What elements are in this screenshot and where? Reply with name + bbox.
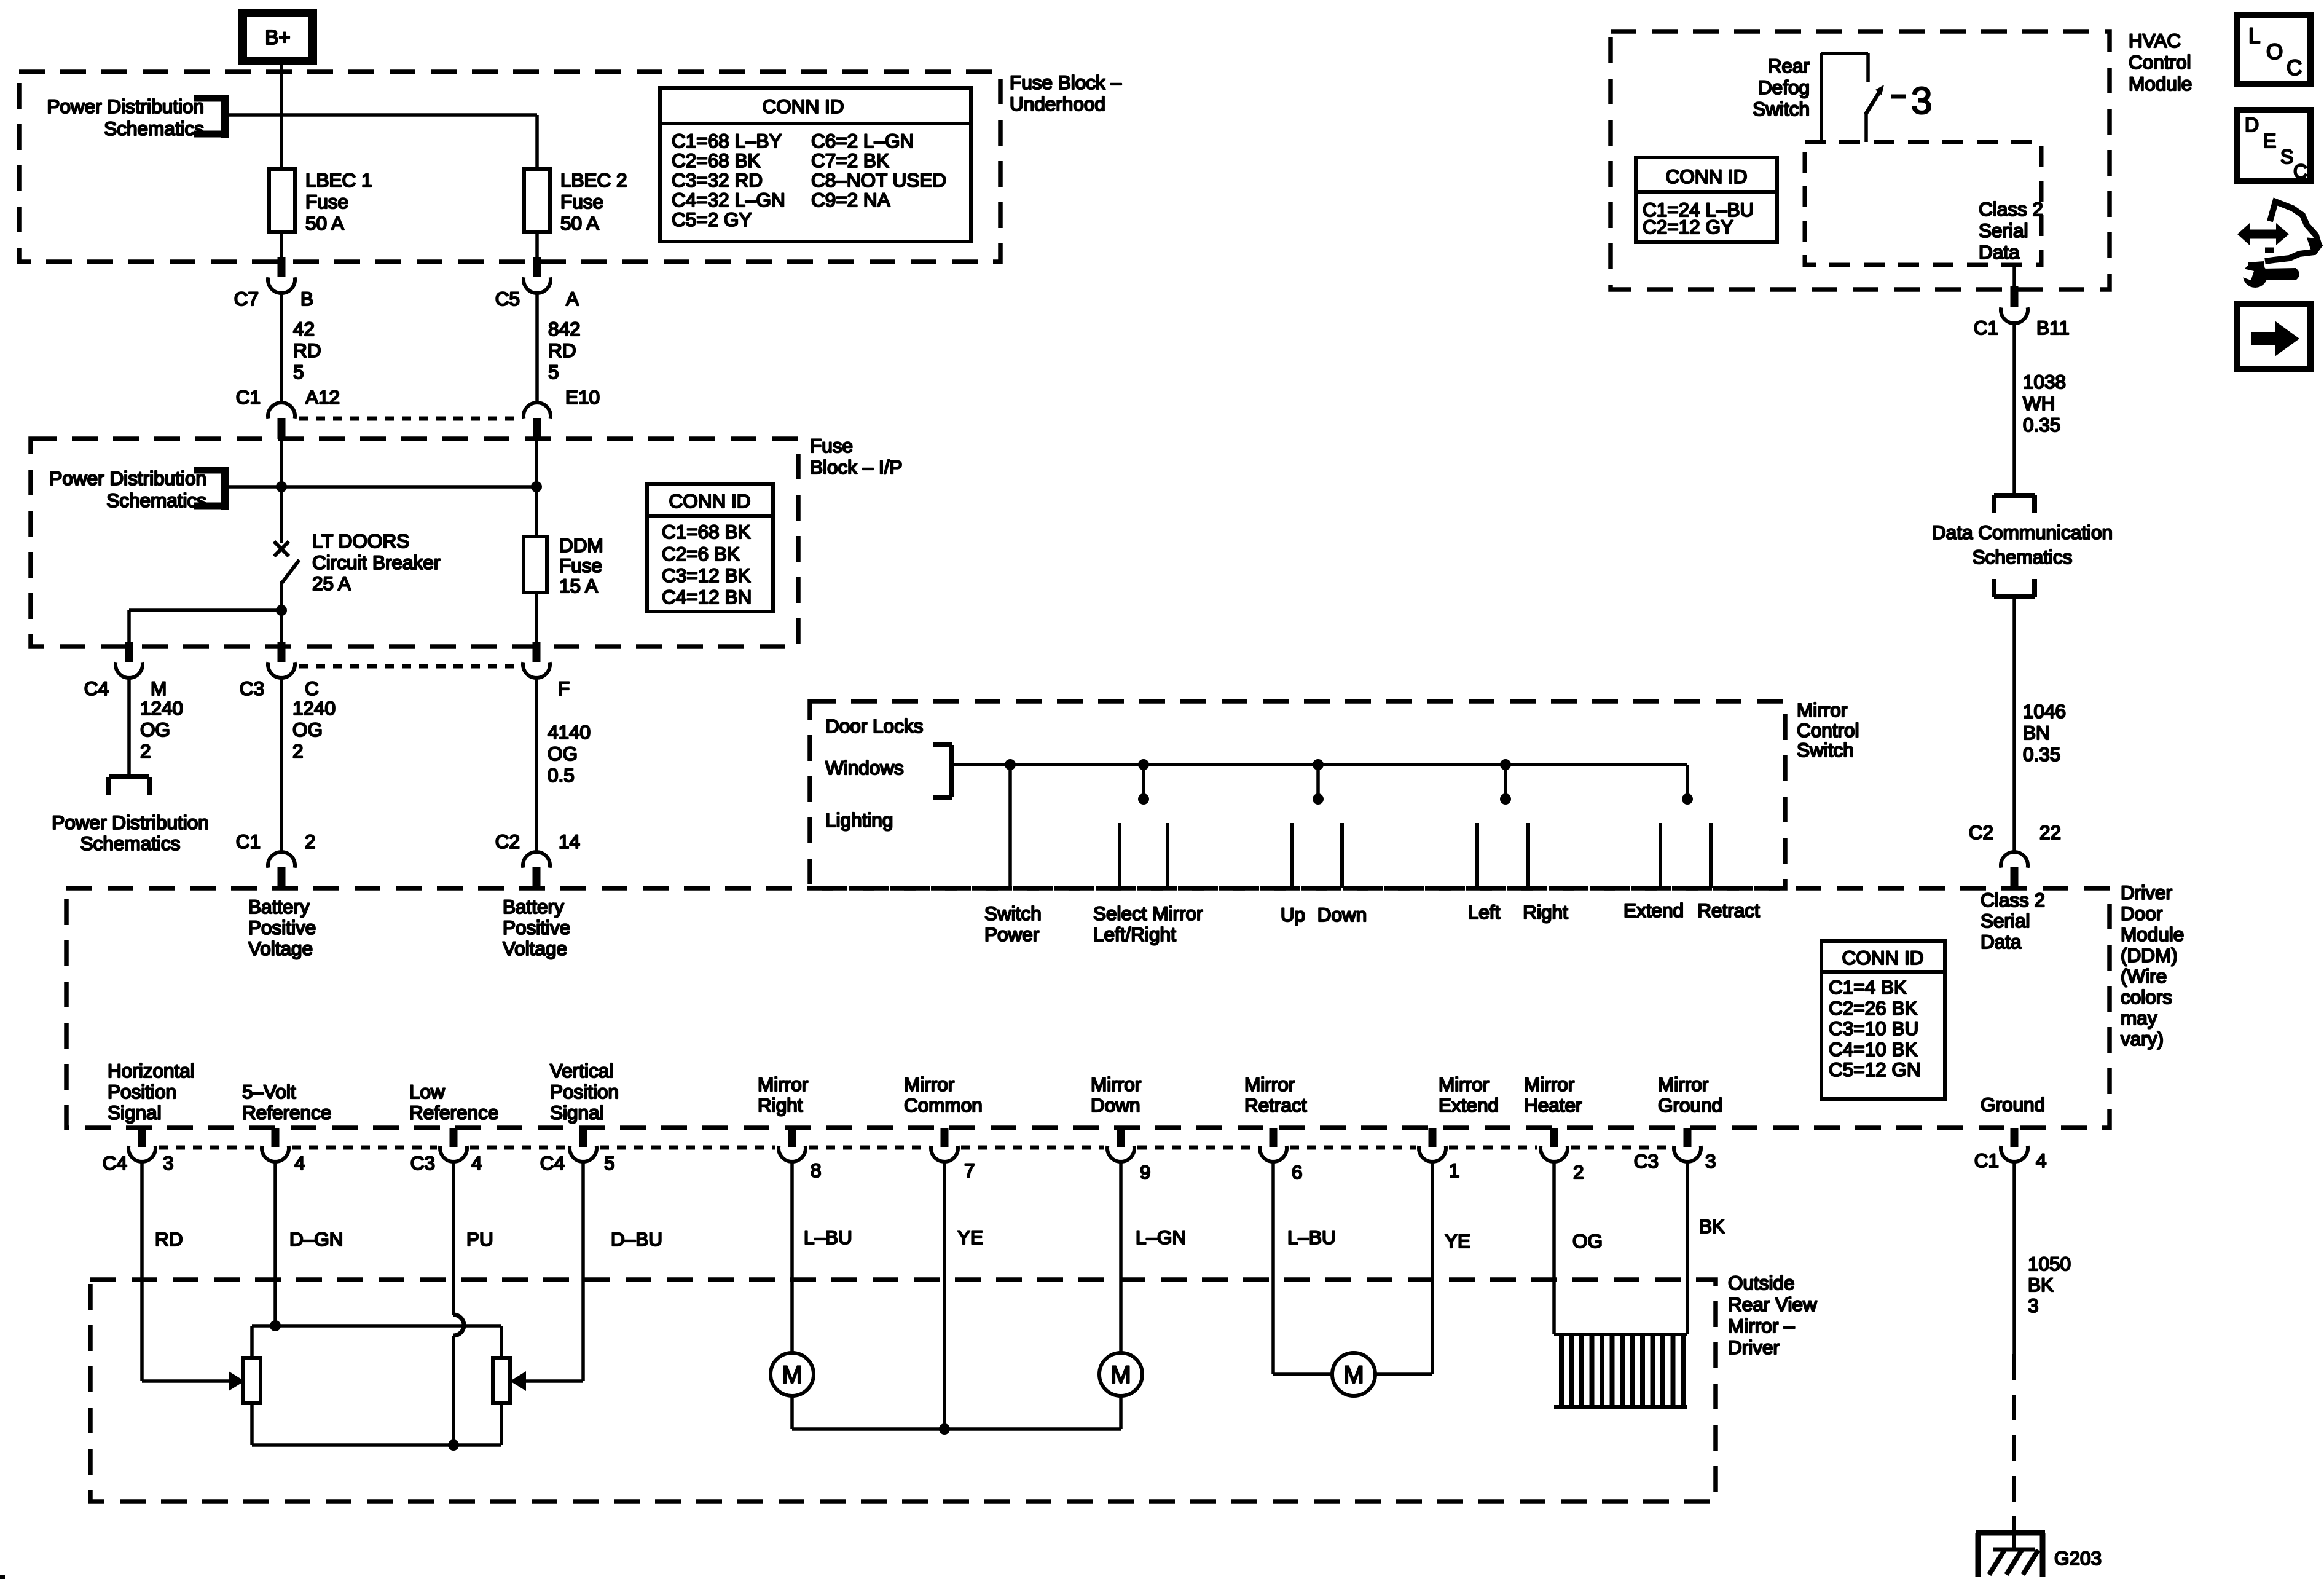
svg-text:Mirror: Mirror [1658,1073,1708,1095]
svg-text:OG: OG [292,719,323,741]
svg-text:L–GN: L–GN [1136,1226,1186,1248]
svg-text:7: 7 [964,1159,975,1181]
svg-text:Switch: Switch [1753,98,1810,120]
svg-text:C3=12 BK: C3=12 BK [662,564,750,586]
svg-text:G203: G203 [2054,1547,2102,1569]
svg-text:Voltage: Voltage [503,937,567,959]
svg-text:5–Volt: 5–Volt [242,1081,296,1103]
svg-text:Battery: Battery [503,896,564,918]
svg-text:42: 42 [293,318,315,340]
svg-text:Driver: Driver [2121,881,2172,904]
svg-text:C4: C4 [84,677,109,699]
svg-text:Position: Position [108,1081,176,1103]
svg-text:1: 1 [1449,1159,1460,1181]
svg-text:CONN ID: CONN ID [1666,165,1748,187]
svg-text:Right: Right [1523,901,1568,923]
svg-text:BK: BK [2028,1274,2054,1296]
svg-text:BN: BN [2023,722,2050,744]
svg-text:L: L [2248,24,2260,48]
svg-text:1038: 1038 [2023,371,2066,393]
svg-text:C7=2 BK: C7=2 BK [811,149,889,171]
svg-text:may: may [2121,1007,2157,1029]
svg-text:C7: C7 [234,288,259,310]
svg-text:colors: colors [2121,986,2172,1008]
svg-text:A: A [566,288,579,310]
svg-text:C2: C2 [1969,821,1993,843]
svg-text:CONN ID: CONN ID [669,490,751,512]
svg-text:WH: WH [2023,392,2055,414]
svg-text:C2: C2 [495,830,520,853]
svg-text:Switch: Switch [984,902,1042,924]
svg-text:Position: Position [550,1081,619,1103]
svg-text:C4=12 BN: C4=12 BN [662,586,752,608]
svg-text:Outside: Outside [1728,1272,1795,1294]
svg-text:Fuse: Fuse [559,554,602,577]
svg-text:OG: OG [548,742,578,765]
svg-text:C4=10 BK: C4=10 BK [1829,1038,1917,1060]
svg-text:Power Distribution: Power Distribution [52,811,209,833]
svg-text:HVAC: HVAC [2129,30,2181,52]
svg-text:Control: Control [2129,51,2191,73]
svg-text:B11: B11 [2036,317,2070,339]
svg-text:Schematics: Schematics [106,489,206,511]
svg-text:C2=26 BK: C2=26 BK [1829,997,1917,1019]
svg-text:1240: 1240 [140,697,183,719]
svg-text:3: 3 [1911,80,1932,122]
svg-text:14: 14 [559,830,580,853]
svg-text:Fuse Block –: Fuse Block – [1010,71,1122,93]
svg-text:50 A: 50 A [305,212,344,234]
svg-text:Down: Down [1317,904,1367,926]
svg-text:S: S [2280,146,2293,168]
svg-text:C6=2 L–GN: C6=2 L–GN [811,130,914,152]
svg-text:Schematics: Schematics [1973,546,2073,568]
svg-text:4: 4 [471,1152,482,1174]
svg-text:M: M [1343,1361,1364,1388]
svg-text:C5=12 GN: C5=12 GN [1829,1058,1921,1081]
svg-text:Rear View: Rear View [1728,1293,1817,1315]
svg-text:C4=32 L–GN: C4=32 L–GN [672,189,785,211]
svg-text:E: E [2263,130,2276,152]
svg-text:Power Distribution: Power Distribution [47,95,204,117]
svg-text:9: 9 [1140,1161,1151,1183]
svg-text:CONN ID: CONN ID [763,95,844,117]
svg-text:YE: YE [1445,1230,1470,1252]
svg-text:Reference: Reference [409,1101,498,1124]
svg-text:C3=32 RD: C3=32 RD [672,169,763,191]
svg-text:PU: PU [466,1228,493,1250]
svg-text:Reference: Reference [242,1101,331,1124]
svg-text:B+: B+ [265,26,290,49]
svg-text:B: B [300,288,313,310]
svg-text:D–GN: D–GN [289,1228,343,1250]
svg-text:Down: Down [1091,1094,1140,1116]
svg-text:Common: Common [904,1094,983,1116]
svg-text:C1=4 BK: C1=4 BK [1829,976,1907,998]
svg-text:Schematics: Schematics [104,117,204,140]
svg-text:Mirror –: Mirror – [1728,1315,1795,1337]
svg-text:C1=68 BK: C1=68 BK [662,521,750,543]
svg-text:2: 2 [305,830,316,853]
svg-text:Serial: Serial [1979,219,2028,242]
svg-text:5: 5 [293,361,304,383]
svg-text:Positive: Positive [503,916,570,939]
svg-text:Data: Data [1979,241,2020,263]
svg-text:Data: Data [1981,931,2022,953]
svg-text:C2=6 BK: C2=6 BK [662,543,740,565]
svg-text:C1: C1 [236,386,261,408]
svg-text:Serial: Serial [1981,910,2030,932]
svg-text:Windows: Windows [825,757,904,779]
svg-text:C1: C1 [236,830,261,853]
svg-text:3: 3 [163,1152,174,1174]
svg-text:Select Mirror: Select Mirror [1093,902,1203,924]
svg-text:25 A: 25 A [312,572,351,594]
svg-text:Heater: Heater [1524,1094,1582,1116]
svg-text:OG: OG [1572,1230,1603,1252]
svg-text:C1: C1 [1974,1149,1999,1171]
svg-text:Power: Power [984,923,1039,945]
svg-text:Horizontal: Horizontal [108,1060,195,1082]
svg-text:C3: C3 [1634,1150,1659,1172]
svg-text:Ground: Ground [1981,1093,2045,1116]
svg-text:1240: 1240 [292,697,336,719]
svg-text:0.5: 0.5 [548,764,575,786]
svg-text:842: 842 [548,318,581,340]
svg-text:Door Locks: Door Locks [825,715,923,737]
svg-text:(DDM): (DDM) [2121,944,2178,966]
svg-text:C: C [305,677,319,699]
svg-text:CONN ID: CONN ID [1842,947,1924,969]
svg-text:L–BU: L–BU [1287,1226,1336,1248]
svg-text:Switch: Switch [1797,739,1854,761]
svg-text:Ground: Ground [1658,1094,1722,1116]
svg-text:L–BU: L–BU [804,1226,852,1248]
svg-text:Mirror: Mirror [1797,699,1847,721]
svg-text:A12: A12 [305,386,340,408]
svg-text:D: D [2245,114,2259,136]
svg-text:C4: C4 [103,1152,127,1174]
svg-text:RD: RD [293,339,321,361]
svg-text:Low: Low [409,1081,445,1103]
svg-text:RD: RD [155,1228,183,1250]
svg-text:5: 5 [548,361,559,383]
svg-text:LT DOORS: LT DOORS [312,530,409,552]
svg-text:4: 4 [2036,1149,2047,1171]
svg-text:Module: Module [2129,73,2192,95]
svg-text:3: 3 [1705,1150,1716,1172]
svg-text:C5=2 GY: C5=2 GY [672,208,752,230]
svg-text:1050: 1050 [2028,1253,2071,1275]
svg-text:C1: C1 [1974,317,1998,339]
svg-text:1046: 1046 [2023,700,2066,722]
svg-text:Fuse: Fuse [560,191,603,213]
svg-text:Signal: Signal [108,1101,162,1124]
svg-text:Retract: Retract [1697,899,1760,921]
svg-text:C: C [2293,160,2307,183]
svg-text:Right: Right [758,1094,803,1116]
svg-text:0.35: 0.35 [2023,414,2060,436]
svg-text:Voltage: Voltage [248,937,313,959]
svg-text:8: 8 [811,1159,822,1181]
svg-text:22: 22 [2039,821,2061,843]
svg-text:Control: Control [1797,719,1859,741]
svg-text:Module: Module [2121,923,2184,945]
svg-text:C5: C5 [495,288,520,310]
svg-text:2: 2 [1573,1161,1584,1183]
svg-text:4140: 4140 [548,721,591,743]
svg-text:Mirror: Mirror [904,1073,954,1095]
svg-text:0.35: 0.35 [2023,743,2060,765]
svg-text:C3: C3 [240,677,264,699]
svg-text:C1=68 L–BY: C1=68 L–BY [672,130,782,152]
svg-text:OG: OG [140,719,170,741]
svg-text:Mirror: Mirror [1244,1073,1295,1095]
svg-text:Mirror: Mirror [1091,1073,1141,1095]
svg-text:Left/Right: Left/Right [1093,923,1176,945]
svg-text:Schematics: Schematics [80,832,181,854]
svg-text:BK: BK [1699,1215,1725,1237]
svg-text:Underhood: Underhood [1010,93,1105,115]
svg-text:C2=68 BK: C2=68 BK [672,149,760,171]
svg-text:C8–NOT USED: C8–NOT USED [811,169,946,191]
svg-text:3: 3 [2028,1294,2039,1317]
svg-text:Mirror: Mirror [758,1073,808,1095]
svg-text:vary): vary) [2121,1028,2164,1050]
svg-text:E10: E10 [565,386,600,408]
svg-text:Class 2: Class 2 [1981,889,2045,911]
svg-text:M: M [151,677,167,699]
svg-text:M: M [782,1361,802,1388]
svg-text:15 A: 15 A [559,575,598,597]
svg-text:2: 2 [140,740,151,762]
svg-text:C3=10 BU: C3=10 BU [1829,1017,1918,1039]
svg-text:Circuit Breaker: Circuit Breaker [312,551,440,573]
svg-text:Extend: Extend [1623,899,1684,921]
svg-text:Signal: Signal [550,1101,604,1124]
svg-text:Up: Up [1281,904,1305,926]
svg-text:C: C [2287,56,2302,80]
svg-text:2: 2 [292,740,304,762]
svg-text:Battery: Battery [248,896,310,918]
svg-text:C4: C4 [540,1152,565,1174]
svg-text:LBEC 2: LBEC 2 [560,169,627,191]
svg-text:Block – I/P: Block – I/P [810,456,903,478]
svg-text:Defog: Defog [1758,76,1810,98]
svg-text:Rear: Rear [1768,55,1810,77]
svg-text:Data Communication: Data Communication [1932,521,2113,543]
svg-text:Door: Door [2121,902,2162,924]
svg-text:Mirror: Mirror [1524,1073,1574,1095]
svg-text:Fuse: Fuse [810,435,853,457]
svg-text:F: F [558,677,570,699]
svg-text:O: O [2266,40,2283,64]
svg-text:C3: C3 [410,1152,435,1174]
svg-text:C9=2 NA: C9=2 NA [811,189,890,211]
svg-text:LBEC 1: LBEC 1 [305,169,372,191]
svg-text:C2=12 GY: C2=12 GY [1643,216,1733,238]
svg-text:Lighting: Lighting [825,809,893,831]
svg-text:DDM: DDM [559,534,603,556]
svg-text:6: 6 [1292,1161,1303,1183]
svg-text:5: 5 [604,1152,615,1174]
svg-text:Fuse: Fuse [305,191,348,213]
svg-text:Class 2: Class 2 [1979,198,2043,220]
svg-text:Retract: Retract [1244,1094,1307,1116]
svg-text:Mirror: Mirror [1439,1073,1489,1095]
svg-text:Power Distribution: Power Distribution [49,467,206,489]
svg-text:Positive: Positive [248,916,316,939]
svg-text:Vertical: Vertical [550,1060,613,1082]
svg-text:YE: YE [957,1226,983,1248]
svg-text:50 A: 50 A [560,212,599,234]
svg-text:4: 4 [294,1152,305,1174]
svg-text:Extend: Extend [1439,1094,1499,1116]
svg-text:M: M [1110,1361,1131,1388]
svg-text:Left: Left [1468,901,1501,923]
svg-text:(Wire: (Wire [2121,965,2167,987]
svg-text:RD: RD [548,339,576,361]
svg-text:Driver: Driver [1728,1336,1780,1358]
svg-text:D–BU: D–BU [611,1228,662,1250]
